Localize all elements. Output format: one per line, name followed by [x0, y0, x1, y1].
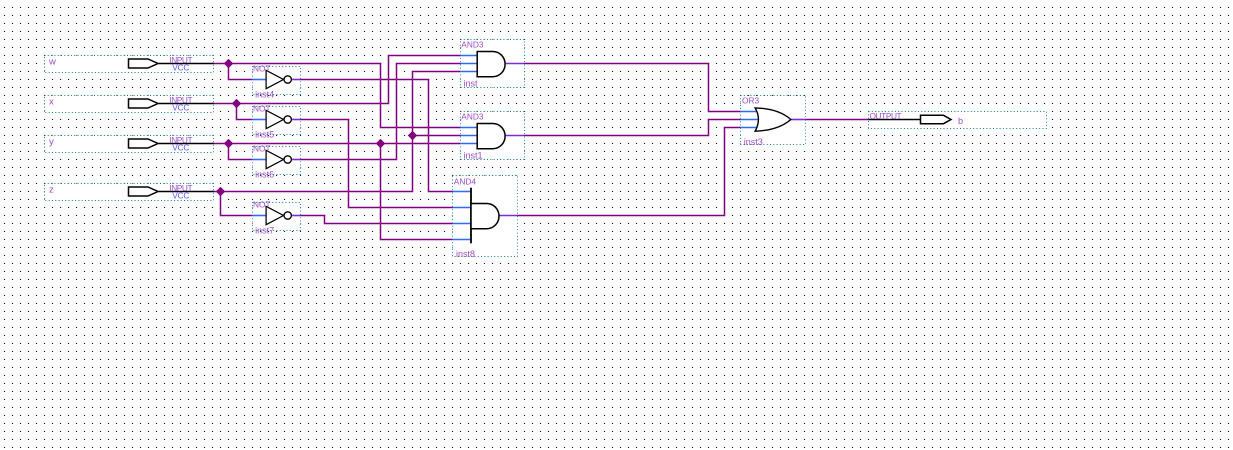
svg-text:AND3: AND3 [461, 111, 484, 121]
NOT gate inst7 output stub [292, 215, 301, 217]
NOT gate inst4 triangle [266, 70, 283, 88]
OR3 gate inst3 selection box [741, 96, 806, 145]
wire net AND3 inst1 output to OR3 input2 [525, 120, 741, 136]
input pin z symbol [129, 187, 214, 196]
AND3 inst input stub 2 [461, 63, 478, 65]
NOT gate inst6 selection box [253, 147, 301, 175]
white background of NOT inst4 [253, 67, 301, 96]
svg-text:VCC: VCC [172, 102, 189, 112]
input pin z selection box [45, 184, 214, 201]
svg-text:VCC: VCC [172, 190, 189, 200]
AND4 inst8 input stub 3 [453, 223, 472, 225]
OR3 inst3 input stub 3 [741, 127, 758, 129]
junction node on net w [224, 59, 233, 68]
NOT gate inst5 triangle [266, 110, 283, 128]
svg-text:VCC: VCC [172, 62, 189, 72]
white background of NOT inst7 [253, 203, 301, 232]
NOT gate inst6 output stub [292, 159, 301, 161]
NOT gate inst5 bubble [284, 116, 291, 123]
white background of input pin z [45, 184, 214, 201]
AND3 inst input stub 1 [461, 55, 478, 57]
AND3 gate inst1 selection box [461, 112, 525, 160]
AND3 gate inst selection box [461, 40, 525, 88]
white background of output pin b [869, 111, 1047, 129]
svg-text:OR3: OR3 [742, 96, 759, 106]
white background of input pin x [45, 96, 214, 113]
white background of AND4 inst8 [453, 176, 518, 257]
svg-text:AND3: AND3 [461, 39, 484, 49]
input pin w selection box [45, 56, 214, 73]
wire net x: pin x to AND3 inst input1 [214, 56, 461, 104]
AND3 inst1 input stub 2 [461, 135, 478, 137]
AND3 inst1 input stub 1 [461, 127, 478, 129]
wire net z tap to AND3 inst1 input2 [413, 135, 461, 137]
OR3 inst3 input stub 2 [741, 119, 760, 121]
output pin b symbol [869, 115, 952, 123]
NOT gate inst5 input stub [253, 119, 267, 121]
wire net w branch to NOT inst4 input [229, 64, 253, 80]
svg-text:inst6: inst6 [255, 170, 274, 180]
wire net y: pin y to AND3 inst1 input3 [214, 143, 461, 145]
wire net NOT inst4 output to AND4 inst8 input1 [301, 80, 453, 192]
NOT gate inst7 selection box [253, 203, 301, 231]
AND4 inst8 output stub [499, 215, 518, 217]
OR3 inst3 input stub 1 [741, 111, 758, 113]
wire net z: pin z to AND3 inst input3 [214, 72, 461, 192]
NOT gate inst4 selection box [253, 67, 301, 95]
input pin x selection box [45, 96, 214, 113]
wire net NOT inst6 output to AND3 inst input2 [301, 64, 461, 160]
AND3 inst1 input stub 3 [461, 143, 478, 145]
AND3 inst output stub [505, 63, 525, 65]
NOT gate inst4 output stub [292, 79, 301, 81]
OR3 inst3 body [755, 108, 791, 131]
junction node on net z [216, 187, 225, 196]
svg-text:NOT: NOT [253, 103, 271, 113]
wire net OR3 output to pin b [806, 119, 869, 121]
NOT gate inst4 bubble [284, 76, 291, 83]
NOT gate inst7 triangle [266, 206, 283, 224]
svg-text:w: w [48, 57, 56, 68]
NOT gate inst5 selection box [253, 107, 301, 135]
svg-text:NOT: NOT [253, 199, 271, 209]
svg-text:inst7: inst7 [255, 226, 274, 236]
input pin x symbol [129, 99, 214, 108]
NOT gate inst5 output stub [292, 119, 301, 121]
NOT gate inst7 input stub [253, 215, 267, 217]
junction node on net y at NOT branch [224, 139, 233, 148]
svg-text:inst8: inst8 [456, 249, 475, 259]
junction node on net z at AND3 inst1 tap [408, 131, 417, 140]
wire net NOT inst5 output to AND4 inst8 input2 [301, 120, 453, 208]
svg-text:VCC: VCC [172, 142, 189, 152]
wire net AND3 inst output to OR3 input1 [525, 64, 741, 112]
white background of OR3 inst3 [741, 96, 806, 144]
wire net z branch to NOT inst7 input [221, 192, 253, 216]
svg-text:b: b [958, 116, 963, 126]
svg-text:x: x [49, 97, 54, 108]
input pin w symbol [129, 59, 214, 68]
OR3 inst3 output stub [791, 119, 806, 121]
junction node on net x [232, 99, 241, 108]
white background of AND3 inst [461, 40, 525, 88]
NOT gate inst4 input stub [253, 79, 267, 81]
wire net x branch to NOT inst5 input [237, 104, 253, 120]
svg-text:OUTPUT: OUTPUT [870, 111, 902, 121]
AND4 inst8 input stub 4 [453, 239, 472, 241]
AND4 inst8 body [471, 204, 499, 229]
NOT gate inst6 input stub [253, 159, 267, 161]
output pin b selection box [869, 112, 1047, 129]
white background of input pin y [45, 136, 214, 153]
AND3 inst1 output stub [505, 135, 525, 137]
input pin y symbol [129, 139, 214, 148]
junction node on net y at AND4 branch [376, 139, 385, 148]
svg-text:y: y [49, 137, 54, 148]
white background of NOT inst5 [253, 107, 301, 136]
wire net AND4 inst8 output to OR3 input3 [518, 128, 741, 216]
white background of NOT inst6 [253, 147, 301, 176]
svg-text:inst1: inst1 [464, 151, 483, 161]
svg-text:z: z [49, 185, 54, 196]
NOT gate inst6 triangle [266, 150, 283, 168]
wire net w: pin w to AND3 inst1 input1 [214, 64, 461, 128]
AND4 gate inst8 selection box [453, 176, 518, 257]
input pin y selection box [45, 136, 214, 153]
svg-text:NOT: NOT [253, 63, 271, 73]
wire net NOT inst7 output to AND4 inst8 input3 [301, 216, 453, 224]
NOT gate inst7 bubble [284, 212, 291, 219]
svg-text:inst: inst [464, 79, 479, 89]
wire net y branch to NOT inst6 input [229, 144, 253, 160]
AND3 inst input stub 3 [461, 71, 478, 73]
svg-text:inst5: inst5 [255, 130, 274, 140]
AND3 inst body [477, 52, 505, 77]
NOT gate inst6 bubble [284, 156, 291, 163]
AND4 inst8 input stub 1 [453, 191, 472, 193]
AND4 inst8 input stub 2 [453, 207, 472, 209]
svg-text:inst4: inst4 [255, 90, 274, 100]
white background of input pin w [45, 56, 214, 73]
AND4 inst8 input bar [470, 188, 472, 244]
white background of AND3 inst1 [461, 112, 525, 160]
svg-text:inst3: inst3 [744, 137, 763, 147]
svg-text:NOT: NOT [253, 143, 271, 153]
wire net y branch to AND4 inst8 input4 [381, 144, 453, 240]
AND3 inst1 body [477, 124, 505, 149]
svg-text:AND4: AND4 [454, 177, 477, 187]
